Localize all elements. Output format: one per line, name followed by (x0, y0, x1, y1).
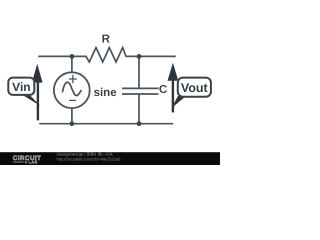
svg-text:R: R (102, 33, 111, 45)
wire: top wire with resistor R1 zigzag (38, 48, 176, 62)
wire: capacitor bottom lead (138, 94, 140, 124)
junction node: top-left (70, 54, 75, 59)
svg-text:LAB: LAB (29, 160, 38, 165)
wire: source top lead (71, 56, 73, 72)
wire: source bottom lead (71, 108, 73, 124)
flag Vin tail (21, 94, 41, 106)
wire: capacitor top lead (138, 56, 140, 88)
watermark text (57, 152, 122, 162)
junction node: top-right (137, 54, 142, 59)
svg-text:Vin: Vin (12, 80, 30, 94)
svg-text:sine: sine (94, 87, 117, 99)
svg-text:http://circuitlab.com/c/bm49y3: http://circuitlab.com/c/bm49y3522a6 (57, 157, 122, 162)
watermark bar (0, 152, 220, 165)
voltage source V1 (sine) (54, 72, 90, 108)
capacitor C1 (122, 88, 159, 94)
flag Vout tail (171, 96, 186, 108)
svg-text:C: C (159, 84, 167, 96)
wire: bottom wire (39, 123, 173, 125)
svg-text:Vout: Vout (181, 81, 209, 95)
CircuitLab logo (13, 155, 41, 164)
probe Vin arrow (32, 64, 43, 121)
probe Vout arrow (168, 63, 179, 113)
flag Vout box (178, 78, 211, 97)
junction node: bottom-left (70, 121, 75, 126)
junction node: bottom-right (137, 121, 142, 126)
flag Vin box (8, 78, 34, 95)
